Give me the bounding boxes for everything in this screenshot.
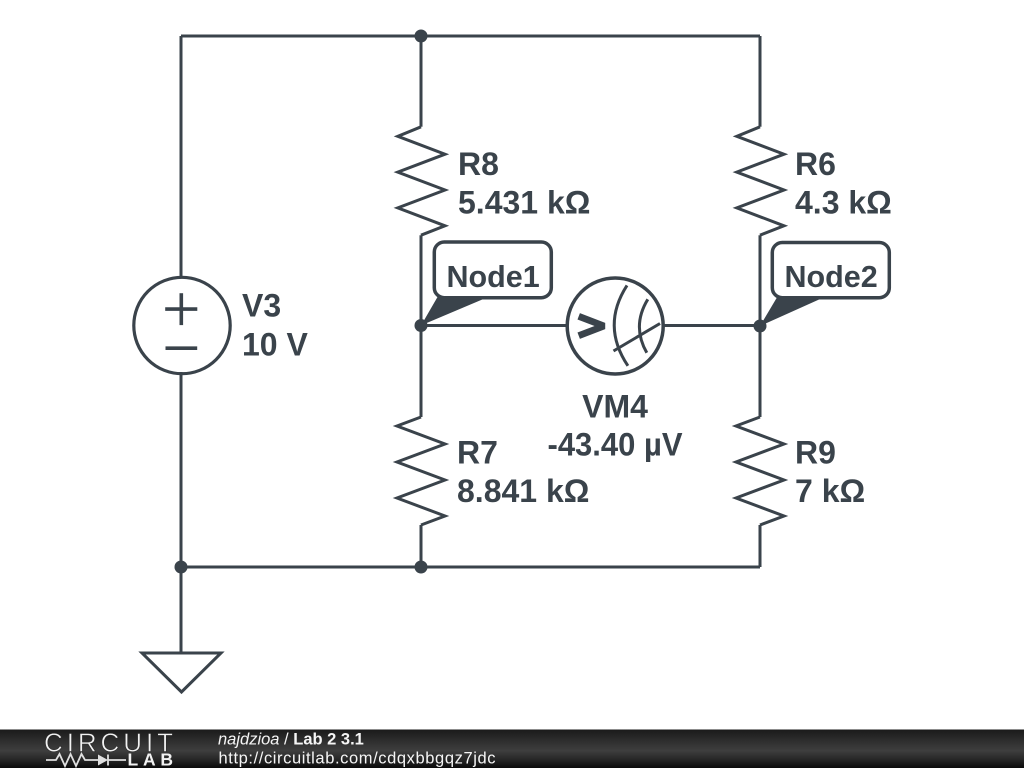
svg-text:10 V: 10 V [242, 326, 308, 362]
svg-text:LAB: LAB [128, 750, 174, 768]
svg-text:najdzioa / Lab 2 3.1: najdzioa / Lab 2 3.1 [218, 730, 364, 748]
svg-text:Node2: Node2 [785, 260, 878, 294]
svg-text:8.841 kΩ: 8.841 kΩ [457, 473, 589, 509]
svg-text:4.3 kΩ: 4.3 kΩ [795, 185, 892, 221]
svg-text:http://circuitlab.com/cdqxbbgq: http://circuitlab.com/cdqxbbgqz7jdc [219, 749, 496, 767]
svg-text:R9: R9 [795, 435, 836, 471]
svg-text:R6: R6 [795, 146, 836, 182]
svg-text:VM4: VM4 [582, 389, 648, 425]
svg-text:-43.40 µV: -43.40 µV [548, 426, 684, 462]
svg-text:5.431 kΩ: 5.431 kΩ [458, 185, 590, 221]
svg-text:7 kΩ: 7 kΩ [795, 473, 865, 509]
svg-text:R8: R8 [458, 146, 499, 182]
svg-text:R7: R7 [457, 435, 498, 471]
svg-text:Node1: Node1 [447, 260, 540, 294]
svg-text:V3: V3 [242, 288, 281, 324]
